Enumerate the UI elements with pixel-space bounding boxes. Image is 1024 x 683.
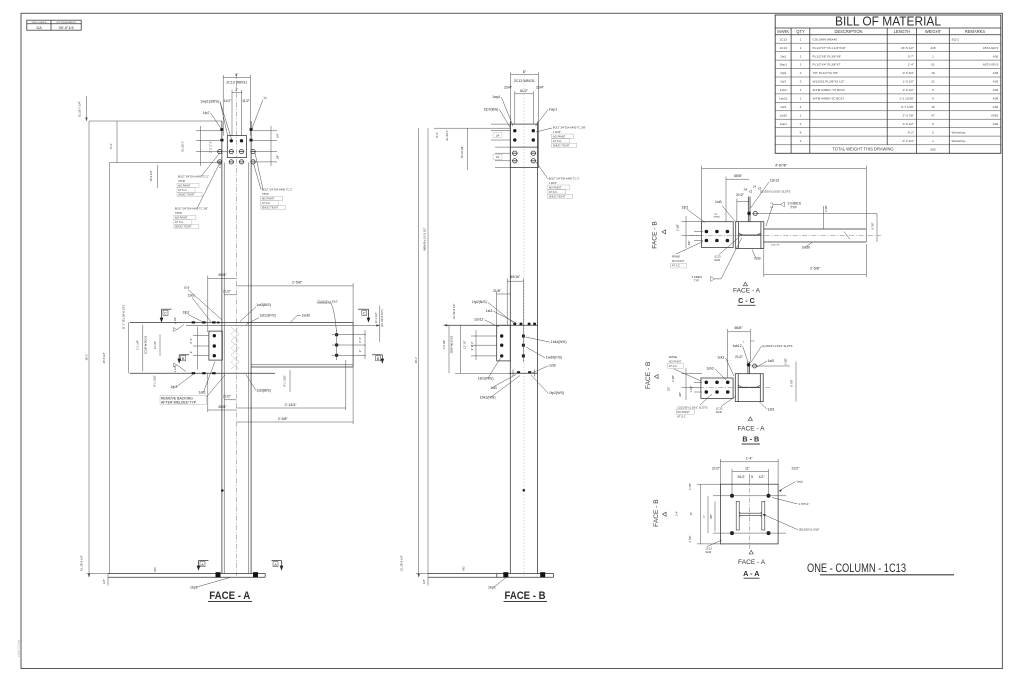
svg-text:1/2": 1/2" [758, 475, 765, 479]
svg-text:0'-5 3/4": 0'-5 3/4" [903, 71, 914, 75]
left dims [700, 484, 702, 544]
top connection line [444, 324, 538, 326]
left dims of plate [682, 221, 704, 223]
FACE-A elevation [78, 73, 293, 577]
svg-text:FACE - A: FACE - A [209, 590, 250, 602]
svg-text:1sh2: 1sh2 [706, 366, 714, 370]
svg-text:1C13: 1C13 [714, 255, 721, 259]
svg-text:B: B [182, 357, 185, 361]
column I-section [735, 374, 763, 402]
svg-text:2C13 W8X31: 2C13 W8X31 [514, 79, 535, 83]
svg-text:21/2": 21/2" [223, 290, 232, 294]
svg-text:6'-4": 6'-4" [435, 132, 439, 137]
anchor bolts [216, 572, 221, 577]
SECTION C-C [652, 164, 882, 306]
svg-text:1fp7: 1fp7 [203, 111, 210, 115]
svg-text:15: 15 [931, 105, 935, 109]
beam end [352, 322, 354, 367]
plate bolts 6x [705, 230, 709, 234]
svg-text:2'-5/8": 2'-5/8" [292, 281, 303, 285]
base plate [428, 573, 554, 575]
svg-text:1'-4": 1'-4" [746, 456, 754, 460]
flange bolt marks top [220, 128, 223, 131]
right rotated labels [353, 324, 380, 326]
svg-text:1/4": 1/4" [276, 133, 280, 138]
svg-text:11/2": 11/2" [224, 99, 233, 103]
svg-text:6 7/8": 6 7/8" [790, 379, 794, 386]
svg-text:1fp7: 1fp7 [780, 80, 786, 84]
svg-text:1: 1 [800, 113, 802, 117]
svg-text:2: 2 [800, 139, 802, 143]
svg-text:1: 1 [800, 63, 802, 67]
splice plate 1wp1 [227, 136, 246, 158]
svg-text:(1)13/16"x1 5/16" SLOTS: (1)13/16"x1 5/16" SLOTS [762, 344, 792, 348]
svg-text:PRIME: PRIME [669, 355, 678, 359]
column centerline [523, 72, 525, 576]
base plate [108, 573, 265, 575]
section cut C right [358, 309, 370, 322]
svg-text:(1)13/16"x1 5/16" SLOTS: (1)13/16"x1 5/16" SLOTS [760, 189, 790, 193]
svg-text:65/8": 65/8" [734, 326, 743, 330]
vertical plate 1sk12 [747, 362, 749, 374]
svg-text:7/8"Ø: 7/8"Ø [262, 192, 269, 196]
delta [749, 550, 753, 554]
right depth dim 8 7/8" [876, 214, 878, 243]
svg-text:AT S.C.: AT S.C. [677, 414, 686, 418]
svg-text:655: 655 [930, 148, 935, 152]
beam top flange [130, 321, 353, 323]
svg-text:1/4: 1/4 [496, 133, 500, 137]
splice line [110, 162, 222, 164]
svg-text:Workshop: Workshop [952, 130, 966, 134]
svg-text:0'-6 1/2": 0'-6 1/2" [903, 122, 914, 126]
svg-text:1'-4": 1'-4" [908, 63, 914, 67]
top left ext line [434, 127, 510, 129]
svg-text:NO PAINT: NO PAINT [178, 184, 191, 188]
svg-text:C: C [164, 312, 167, 316]
prime note [671, 242, 703, 269]
svg-text:0'-0 1/2": 0'-0 1/2" [903, 88, 914, 92]
svg-text:2 7/8": 2 7/8" [688, 483, 692, 490]
svg-text:1w30(F/S): 1w30(F/S) [546, 356, 562, 360]
svg-text:1st3: 1st3 [549, 364, 556, 368]
top dim 8" [511, 73, 539, 75]
delta [743, 282, 747, 286]
svg-text:(EL.50'-8 1/2"): (EL.50'-8 1/2") [380, 309, 384, 326]
svg-text:2: 2 [800, 80, 802, 84]
svg-text:NO PAINT: NO PAINT [677, 410, 690, 414]
svg-text:A36: A36 [993, 105, 999, 109]
svg-text:1st3: 1st3 [486, 309, 493, 313]
svg-text:2 1/2": 2 1/2" [173, 317, 177, 324]
svg-text:FACE - A: FACE - A [733, 288, 761, 295]
svg-text:1 7/8"x1": 1 7/8"x1" [799, 502, 810, 506]
svg-text:1/4: 1/4 [496, 155, 500, 159]
svg-text:2 3/8": 2 3/8" [784, 358, 788, 365]
svg-text:21/2": 21/2" [791, 466, 800, 470]
svg-text:7/8" PL1/2"X3 7/8": 7/8" PL1/2"X3 7/8" [813, 71, 838, 75]
svg-text:21/2": 21/2" [223, 395, 232, 399]
svg-text:PL1/2"X8" PL3/8"X8": PL1/2"X8" PL3/8"X8" [813, 54, 842, 58]
splice plate bolts [230, 139, 233, 142]
beam 1w30 [764, 228, 867, 230]
svg-text:15'-5 1/2": 15'-5 1/2" [901, 46, 914, 50]
centerline [689, 234, 881, 236]
svg-text:DESCRIPTION: DESCRIPTION [835, 29, 863, 34]
svg-text:1bp1: 1bp1 [488, 586, 496, 590]
svg-text:BILL OF MATERIAL: BILL OF MATERIAL [835, 15, 941, 29]
svg-text:A36: A36 [993, 97, 999, 101]
svg-text:1fa1: 1fa1 [780, 54, 786, 58]
long dim lines [418, 128, 420, 577]
svg-text:BOLT 3/4"DIA A490 TC 2": BOLT 3/4"DIA A490 TC 2" [178, 175, 209, 179]
left dims [471, 335, 497, 337]
bolt note box 1 [177, 153, 220, 197]
svg-text:SLIR: SLIR [705, 550, 711, 554]
svg-text:1wp1: 1wp1 [549, 107, 557, 111]
svg-text:1sh2(N/S): 1sh2(N/S) [478, 377, 494, 381]
anchor bolts [503, 572, 508, 577]
svg-text:2: 2 [800, 71, 802, 75]
svg-text:1/4": 1/4" [102, 579, 106, 584]
svg-text:1fsp1: 1fsp1 [779, 63, 787, 67]
drawing title [807, 561, 954, 575]
svg-text:C: C [363, 312, 366, 316]
svg-text:B - B: B - B [742, 435, 759, 444]
svg-text:2'-5/8": 2'-5/8" [810, 267, 821, 271]
svg-text:A572-GR.5: A572-GR.5 [983, 63, 999, 67]
svg-text:GRIND: GRIND [714, 216, 721, 218]
prime note [668, 355, 701, 381]
svg-text:0'-2 3/4": 0'-2 3/4" [903, 139, 914, 143]
svg-text:PL1/2"X4" PL3/8"X7: PL1/2"X4" PL3/8"X7 [813, 63, 841, 67]
left vertical dims [127, 322, 129, 373]
splice right dims 1/4 [253, 130, 277, 132]
top dimension 3" [232, 92, 242, 94]
right depth dim [795, 362, 797, 402]
svg-text:2 3/8": 2 3/8" [671, 375, 675, 382]
svg-text:2C3/8 W14X22: 2C3/8 W14X22 [144, 335, 148, 354]
svg-text:SLIR: SLIR [716, 410, 722, 414]
bill of material rows [779, 37, 998, 151]
svg-text:15'-10 1/4": 15'-10 1/4" [460, 146, 464, 159]
svg-text:51: 51 [931, 63, 935, 67]
right bolt dots on beam [335, 333, 338, 336]
bolt crosslines [713, 495, 786, 497]
svg-text:3/8: 3/8 [744, 188, 748, 192]
svg-text:A36: A36 [993, 80, 999, 84]
svg-text:1 1/2": 1 1/2" [689, 385, 693, 392]
svg-text:21/2": 21/2" [712, 466, 721, 470]
svg-text:1fp2: 1fp2 [780, 71, 786, 75]
svg-text:SNUG TIGHT: SNUG TIGHT [175, 225, 192, 229]
bolt note box 2 [174, 164, 220, 229]
svg-text:AT S.C.: AT S.C. [175, 220, 184, 224]
hex bolts row 1 [217, 150, 256, 154]
svg-text:EL.39'-6 1/4": EL.39'-6 1/4" [79, 555, 83, 570]
SECTION B-B [645, 326, 796, 444]
svg-text:3 SIDES: 3 SIDES [692, 275, 703, 279]
slots note bottom [676, 394, 712, 418]
svg-text:11'-1" (EL.50'-8 1/2"): 11'-1" (EL.50'-8 1/2") [122, 305, 126, 330]
clip plate bolts [213, 334, 216, 337]
svg-text:1/4": 1/4" [422, 579, 426, 584]
svg-text:LENGTH: LENGTH [894, 29, 911, 34]
svg-text:1: 1 [932, 54, 934, 58]
bolt note box right 1 [536, 125, 586, 147]
svg-text:A572-GR.5: A572-GR.5 [983, 46, 999, 50]
svg-text:(3)13/16"x1 5/16": (3)13/16"x1 5/16" [799, 528, 820, 532]
svg-text:3/8": 3/8" [687, 241, 691, 246]
svg-text:1fp2: 1fp2 [682, 206, 689, 210]
svg-text:16'-1": 16'-1" [84, 354, 88, 361]
svg-text:A36: A36 [993, 54, 999, 58]
svg-text:69/16": 69/16" [510, 275, 521, 279]
svg-text:8: 8 [800, 130, 802, 134]
svg-text:3": 3" [358, 350, 362, 352]
svg-text:9'-1 1/16": 9'-1 1/16" [152, 375, 156, 386]
svg-text:GRID LOCATION: GRID LOCATION [32, 21, 47, 24]
svg-text:TOTAL WEIGHT THIS DRAWING: TOTAL WEIGHT THIS DRAWING [832, 147, 893, 152]
svg-text:1sk1: 1sk1 [188, 294, 195, 298]
svg-text:1w30: 1w30 [302, 314, 310, 318]
svg-text:RD: RD [462, 567, 466, 571]
svg-text:12'-10": 12'-10" [463, 340, 467, 348]
svg-text:1: 1 [800, 88, 802, 92]
svg-text:SNUG TIGHT: SNUG TIGHT [549, 194, 566, 198]
svg-text:5/16 TYP: 5/16 TYP [771, 245, 780, 247]
svg-text:5: 5 [932, 88, 934, 92]
svg-text:3/4"Ø A490N TC BOLT: 3/4"Ø A490N TC BOLT [813, 97, 845, 101]
FACE-B base [400, 555, 554, 602]
svg-text:1fp7(B/S): 1fp7(B/S) [484, 107, 499, 111]
1/4" dim [427, 574, 429, 586]
svg-text:AT S.C.: AT S.C. [672, 264, 681, 268]
svg-text:5: 5 [932, 130, 934, 134]
svg-text:5: 5 [932, 122, 934, 126]
svg-text:FACE - B: FACE - B [653, 499, 660, 527]
svg-text:PL1/2"X7" PL1 1/4"X16": PL1/2"X7" PL1 1/4"X16" [813, 46, 846, 50]
svg-text:11": 11" [689, 512, 693, 516]
svg-text:FACE - A: FACE - A [738, 559, 766, 566]
svg-text:15'-5 1/2": 15'-5 1/2" [102, 352, 106, 363]
svg-text:1w30: 1w30 [802, 246, 810, 250]
weld zigzag on column web [231, 327, 239, 369]
svg-text:A992: A992 [991, 113, 999, 117]
svg-text:AT S.C.: AT S.C. [549, 190, 558, 194]
section cut C left [160, 309, 172, 322]
column centerline [235, 74, 237, 576]
svg-text:2C13 W8X31: 2C13 W8X31 [226, 80, 247, 84]
svg-text:2'-3 7/8": 2'-3 7/8" [903, 113, 914, 117]
svg-text:NO PAINT: NO PAINT [672, 259, 685, 263]
svg-text:BOLT 3/4"DIA A490 TC 3/8": BOLT 3/4"DIA A490 TC 3/8" [553, 125, 586, 129]
svg-text:5: 5 [751, 475, 753, 479]
svg-text:15'-0 1/4": 15'-0 1/4" [149, 170, 153, 181]
svg-text:MARK: MARK [777, 29, 789, 34]
svg-text:PRIME: PRIME [672, 255, 681, 259]
svg-text:21/8": 21/8" [493, 289, 502, 293]
svg-text:1/4": 1/4" [276, 155, 280, 160]
svg-text:1C13: 1C13 [705, 547, 712, 551]
svg-text:1st3(B/S): 1st3(B/S) [256, 303, 271, 307]
svg-text:11": 11" [745, 466, 751, 470]
bill of material table [775, 15, 1001, 154]
svg-text:SQ-2: SQ-2 [952, 37, 960, 41]
weld dot [523, 489, 526, 492]
bolt note box 3 [254, 153, 293, 210]
svg-text:1'-1 15/16": 1'-1 15/16" [899, 97, 914, 101]
svg-text:1wp1: 1wp1 [797, 479, 804, 483]
svg-text:A: A [274, 563, 277, 567]
svg-text:65/8": 65/8" [734, 174, 743, 178]
svg-text:2'-13/4": 2'-13/4" [285, 403, 298, 407]
svg-text:1 1/2": 1 1/2" [218, 161, 222, 168]
svg-text:3" 3": 3" 3" [189, 338, 193, 344]
bolt plate left [701, 378, 733, 398]
svg-text:51/2: 51/2 [738, 475, 745, 479]
svg-text:FACE - B: FACE - B [645, 361, 652, 389]
svg-text:EL.39'-6 1/4": EL.39'-6 1/4" [400, 555, 404, 570]
svg-text:1wp1: 1wp1 [779, 122, 787, 126]
svg-text:2: 2 [800, 54, 802, 58]
svg-text:3" 3": 3" 3" [358, 337, 362, 343]
weld dot on shaft [221, 489, 224, 492]
svg-text:A36: A36 [993, 122, 999, 126]
svg-text:47: 47 [931, 113, 935, 117]
svg-text:1fp2(N/S): 1fp2(N/S) [549, 391, 564, 395]
svg-text:AT S.C.: AT S.C. [553, 139, 562, 143]
clip plate 1sk1 [209, 331, 222, 360]
svg-text:SNUG TIGHT: SNUG TIGHT [262, 206, 279, 210]
svg-text:1: 1 [800, 37, 802, 41]
svg-text:23/4": 23/4" [504, 86, 513, 90]
svg-text:ONE - COLUMN - 1C13: ONE - COLUMN - 1C13 [807, 561, 906, 575]
svg-text:1st3(B/S): 1st3(B/S) [256, 389, 271, 393]
svg-text:21: 21 [931, 80, 935, 84]
svg-text:2 7/8": 2 7/8" [688, 535, 692, 542]
svg-text:4'-67/8": 4'-67/8" [775, 164, 788, 168]
section cut B left [177, 355, 189, 364]
svg-text:TYP: TYP [790, 205, 797, 209]
top right ext line [756, 212, 877, 214]
svg-text:11/2": 11/2" [242, 99, 251, 103]
svg-text:Workshop: Workshop [952, 139, 966, 143]
svg-text:RD: RD [153, 568, 157, 572]
SECTION A-A [653, 456, 819, 578]
svg-text:1/2": 1/2" [667, 387, 671, 392]
column I-section plan [736, 501, 765, 530]
svg-text:BOLT 3/4"DIA A490 TC 2": BOLT 3/4"DIA A490 TC 2" [549, 176, 580, 180]
svg-text:7/8"Ø: 7/8"Ø [175, 211, 182, 215]
svg-text:3/4"Ø A490N, TC BOLT: 3/4"Ø A490N, TC BOLT [813, 88, 846, 92]
svg-text:1fp2: 1fp2 [171, 385, 178, 389]
svg-text:c:\pw\1C13.dwg: c:\pw\1C13.dwg [18, 639, 21, 657]
bottom connection [508, 372, 537, 374]
svg-text:1wp1(3/8'S): 1wp1(3/8'S) [200, 100, 219, 104]
svg-text:11'-1 1/2": 11'-1 1/2" [374, 312, 378, 323]
svg-text:23/4": 23/4" [536, 86, 545, 90]
svg-text:16'-1": 16'-1" [414, 357, 418, 364]
svg-text:16: 16 [931, 71, 935, 75]
svg-text:AT S.C.: AT S.C. [669, 364, 678, 368]
center bolts [522, 335, 525, 338]
svg-text:39'-0"1/4: 39'-0"1/4 [59, 26, 74, 30]
svg-text:(1)13/16"x1 5/16" SLOTS: (1)13/16"x1 5/16" SLOTS [677, 405, 707, 409]
svg-text:4: 4 [800, 105, 802, 109]
svg-text:1st12(F/S): 1st12(F/S) [259, 314, 275, 318]
svg-text:EL.55'-7 1/4": EL.55'-7 1/4" [78, 101, 82, 116]
section cut A right [272, 561, 284, 571]
svg-text:3" 3" 2" 3": 3" 3" 2" 3" [209, 141, 213, 153]
erection location mini table [27, 20, 81, 30]
beam bottom flange [251, 364, 353, 366]
svg-text:0'-7 1/16": 0'-7 1/16" [901, 105, 914, 109]
top bolts [513, 323, 516, 326]
column shaft edges [509, 122, 511, 574]
svg-text:1sb2: 1sb2 [780, 88, 787, 92]
svg-text:1/4: 1/4 [753, 185, 757, 189]
svg-text:W8X40 x 15'-5 1/2": W8X40 x 15'-5 1/2" [422, 227, 426, 250]
hex bolts row 2 [217, 160, 256, 164]
column I-section [736, 222, 764, 249]
svg-text:SNUG TIGHT: SNUG TIGHT [553, 143, 570, 147]
svg-text:2: 2 [800, 122, 802, 126]
svg-text:1wp1: 1wp1 [492, 95, 500, 99]
svg-text:A - A: A - A [743, 569, 759, 578]
svg-text:1'-0 1/8": 1'-0 1/8" [442, 340, 446, 350]
svg-text:61/2": 61/2" [520, 89, 529, 93]
svg-text:1st3: 1st3 [768, 359, 775, 363]
bottom plate line [130, 372, 275, 374]
svg-text:NO PAINT: NO PAINT [175, 216, 188, 220]
svg-text:AFTER WELDED TYP.: AFTER WELDED TYP. [161, 400, 197, 404]
svg-text:1fp2(N/S): 1fp2(N/S) [472, 300, 487, 304]
vertical plate above section [747, 197, 749, 222]
svg-text:1: 1 [800, 97, 802, 101]
svg-text:C - C: C - C [738, 296, 755, 305]
svg-text:1sk1: 1sk1 [198, 391, 205, 395]
svg-text:2 3/8": 2 3/8" [824, 205, 828, 212]
svg-text:EL.55'-1": EL.55'-1" [445, 130, 449, 141]
svg-text:12'-10": 12'-10" [153, 341, 157, 349]
svg-text:1C13: 1C13 [779, 46, 787, 50]
svg-text:1bk1(N/S): 1bk1(N/S) [480, 396, 496, 400]
clip bolt dims [193, 335, 209, 337]
svg-text:1C13: 1C13 [716, 407, 723, 411]
svg-text:1sb12: 1sb12 [779, 97, 788, 101]
column shaft flange lines [221, 121, 223, 574]
anchor bolts [730, 494, 734, 498]
top dimension 8" [223, 77, 250, 79]
svg-text:3" 3" 3": 3" 3" 3" [470, 342, 474, 351]
svg-text:3": 3" [189, 351, 193, 353]
splice left dims 3 3 2 3 [196, 130, 222, 132]
svg-text:FACE - B: FACE - B [652, 221, 659, 249]
svg-text:1sh12: 1sh12 [770, 178, 780, 182]
svg-text:FACE - A: FACE - A [737, 426, 765, 433]
svg-text:1bp1: 1bp1 [190, 586, 198, 590]
svg-text:1/A: 1/A [36, 26, 42, 30]
bolt note box right 2 [536, 162, 580, 199]
FACE-B mid connection [442, 275, 567, 400]
weld dot and bolt symbol [747, 212, 751, 216]
svg-text:1sh12: 1sh12 [474, 318, 484, 322]
top left extension line EL.55'-1" [89, 120, 222, 122]
svg-text:1fp2: 1fp2 [183, 310, 190, 314]
svg-text:COLUMN W8X40: COLUMN W8X40 [813, 37, 838, 41]
svg-text:A: A [201, 563, 204, 567]
